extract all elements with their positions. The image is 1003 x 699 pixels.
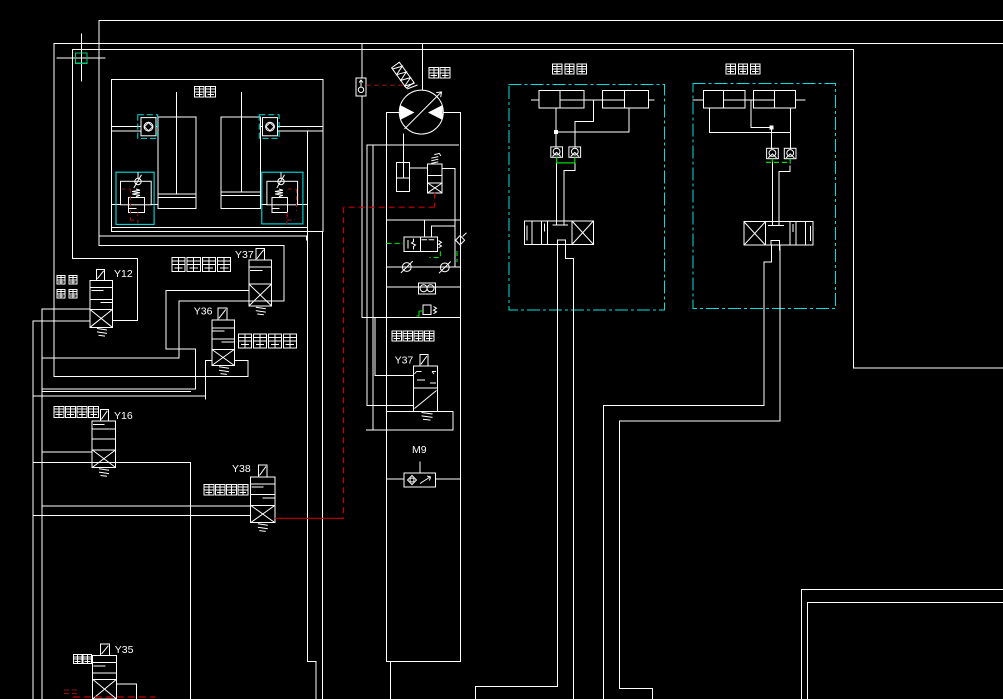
- pilot line red relief right: [287, 189, 297, 228]
- solenoid Y12: [96, 269, 104, 280]
- wire CV2 down R: [789, 166, 791, 171]
- label 动力: [57, 276, 77, 285]
- wire y688 jog: [619, 687, 652, 689]
- solenoid Y37: [256, 248, 265, 260]
- label 主卷快速: [54, 407, 99, 418]
- svg-text:Y16: Y16: [114, 410, 133, 422]
- wire rail x42: [41, 309, 43, 699]
- solenoid Y35: [101, 644, 110, 655]
- gauge test point M: [356, 78, 366, 96]
- wire CV1 to valve: [556, 163, 558, 225]
- solenoid Y16: [100, 409, 108, 421]
- wire rail x190: [189, 463, 191, 699]
- valve Y37 lower body: [414, 366, 438, 412]
- wire rail x322 to bottom: [322, 232, 324, 699]
- label 左伸出: [553, 64, 587, 74]
- valve Y35 X cell: [93, 679, 117, 699]
- spring pump relief top: [431, 153, 441, 163]
- valve Y36 body: [212, 320, 235, 366]
- relief valve right luffing: [262, 172, 303, 224]
- gauge arrow: [359, 80, 363, 87]
- valve left-extend X cell: [572, 221, 594, 245]
- label 主卷开锁: [239, 334, 297, 348]
- wire M9 right: [436, 478, 460, 480]
- pilot line green CV link left-extend: [557, 157, 575, 163]
- spring Y37: [256, 307, 266, 315]
- wire x178 drop: [178, 301, 180, 358]
- wire x195 drop: [195, 349, 197, 389]
- wire junction y131: [556, 131, 629, 133]
- gauge circle: [358, 87, 363, 92]
- piston relief left: [129, 198, 145, 213]
- wire y348 horizontal: [166, 348, 196, 350]
- wire CV2 to box right: [278, 126, 324, 128]
- relief valve left luffing: [116, 172, 154, 224]
- wire Y12 right port: [112, 319, 137, 321]
- check valve left-extend CV1: [551, 147, 563, 157]
- solenoid Y37 lower: [420, 355, 428, 366]
- cylinder left-extend A: [539, 90, 584, 108]
- wire CV1 to valve R: [771, 162, 773, 225]
- pump triangles: [400, 105, 443, 120]
- valve Y16 X cell: [92, 450, 115, 468]
- wire y376 horizontal: [54, 375, 248, 377]
- cylinder right luffing: [221, 117, 261, 209]
- piston relief right: [272, 198, 288, 213]
- svg-text:Y36: Y36: [194, 306, 213, 318]
- wire M9 left: [387, 478, 405, 480]
- wire CV1 to cylinder: [156, 126, 158, 128]
- label 高速: [57, 290, 77, 299]
- wire bianfu lower bus: [100, 235, 307, 237]
- wire jog y258: [566, 258, 574, 260]
- wire bianfu inner bus: [112, 227, 308, 229]
- pilot line red bottom: [73, 696, 156, 698]
- wire CV2 lower to box right: [278, 130, 324, 132]
- svg-text:Y12: Y12: [114, 268, 133, 280]
- wire pilot stem B: [430, 226, 432, 237]
- node right extend section box: [693, 84, 835, 309]
- wire x205 drop: [204, 361, 206, 399]
- pilot line red relief left: [122, 189, 138, 227]
- wire CV2 down: [574, 163, 576, 171]
- wire y225 pilot link: [431, 225, 455, 227]
- wire top border line 3: [73, 49, 854, 51]
- wire y358 to rail: [42, 357, 179, 359]
- wire gauge top: [361, 44, 363, 79]
- wire y121 link: [575, 121, 594, 123]
- valve Y38 body: [251, 477, 275, 523]
- wire rail x316 bottom: [315, 662, 317, 699]
- wire Y35 right box side: [135, 684, 137, 699]
- wire x390 bottom: [389, 662, 391, 699]
- wire jog x307-x316: [307, 661, 316, 663]
- valve left-extend directional body: [524, 221, 593, 245]
- cylinder left luffing: [158, 117, 196, 209]
- svg-text:Y37: Y37: [395, 355, 414, 367]
- wire x619 drop: [618, 421, 620, 689]
- wire y411 under Y37: [387, 410, 453, 412]
- check valve diamond right rail: [456, 233, 467, 245]
- wire x574 drop to CV: [574, 122, 576, 147]
- wire Y12 left port lower: [33, 320, 90, 322]
- wire x283 drop: [283, 245, 285, 301]
- wire right frame horizontal: [853, 367, 1003, 369]
- wire x771 drop to CV R: [771, 127, 773, 148]
- wire Y35 right box top: [117, 683, 137, 685]
- wire y317 horizontal: [362, 316, 460, 318]
- spring relief right: [275, 189, 283, 197]
- flow divider circle A: [420, 285, 427, 292]
- pump main variable displacement P1: [399, 90, 443, 134]
- wire x652 bottom: [651, 688, 653, 699]
- pilot line green hook: [429, 251, 457, 262]
- wire pump discharge right: [443, 112, 460, 114]
- flow divider gear: [418, 283, 435, 294]
- wire rail x375: [374, 317, 376, 375]
- wire Y36 right port: [234, 360, 248, 362]
- wire y301 horizontal: [179, 300, 284, 302]
- wire right frame vertical: [852, 50, 854, 369]
- valve right-extend X cell: [744, 222, 766, 246]
- wire rail x72: [72, 50, 74, 259]
- wire x603 to bottom: [603, 406, 605, 699]
- check valve CV left manifold: [401, 261, 413, 273]
- wire y391 to rail: [42, 390, 190, 392]
- wire to CV1: [112, 126, 142, 128]
- wire inner right drop: [306, 131, 308, 228]
- spring Y37 lower: [422, 413, 433, 421]
- wire Y36 left port stub: [205, 360, 211, 362]
- wire Y16 left port upper: [42, 451, 92, 453]
- wire Y37 left port: [166, 289, 249, 291]
- check valve right-extend CV1: [767, 148, 779, 158]
- valve M9 internals: [408, 476, 431, 485]
- wire x455 drop to check row: [454, 168, 456, 267]
- svg-text:Y38: Y38: [232, 463, 251, 475]
- wire x248 drop: [247, 361, 249, 377]
- wire y389 to rail: [42, 388, 196, 390]
- wire top border line 1: [99, 20, 1003, 22]
- wire mid drop: [593, 100, 595, 122]
- pilot line green CV link right-extend: [766, 159, 790, 166]
- valve Y37 body: [249, 260, 272, 306]
- wire y405 horizontal: [604, 405, 765, 407]
- svg-text:M9: M9: [412, 444, 427, 456]
- valve small pilot body: [423, 305, 431, 315]
- spring Y12: [97, 329, 107, 337]
- wire y258 horizontal: [73, 257, 138, 259]
- wire relief right port: [442, 167, 455, 169]
- wire left rail x99: [98, 21, 100, 246]
- wire left-extend out A: [557, 245, 559, 687]
- pilot line green to 2-cell valve: [387, 242, 405, 244]
- pilot line red gauge: [366, 84, 403, 86]
- wire mid drop R: [750, 100, 752, 127]
- wire Y38 left port lower: [33, 515, 251, 517]
- wire rod stub left: [532, 99, 540, 101]
- node bianfu section box: [112, 79, 324, 231]
- wire rail x33: [32, 321, 34, 699]
- pilot line red Y38 to manifold: [275, 517, 344, 519]
- node left extend section box: [509, 85, 665, 310]
- valve Y16 body: [92, 421, 115, 468]
- wire relief right inner line: [272, 208, 279, 210]
- spring small pilot: [434, 307, 437, 314]
- wire pilot to 2-cell valve: [424, 220, 426, 237]
- wire x475 bottom: [475, 687, 477, 699]
- wire rod link middle R: [745, 99, 753, 101]
- valve left-extend bottom port: [558, 240, 566, 245]
- svg-text:Y37: Y37: [235, 249, 254, 261]
- solenoid Y36: [218, 308, 227, 320]
- check valve right balance CV2: [259, 115, 279, 139]
- node datum target crosshair: [57, 34, 105, 81]
- valve Y35 body: [93, 655, 117, 699]
- valve right-extend bottom port: [771, 241, 779, 246]
- wire Y37 lower port lower: [367, 404, 414, 406]
- wire y396 to rail: [33, 395, 205, 397]
- wire cylA drop: [555, 108, 557, 147]
- wire junction y132 R: [709, 132, 790, 134]
- wire check row bus y267: [387, 266, 460, 268]
- wire drop: [306, 236, 308, 240]
- wire relief left stub out: [151, 203, 158, 205]
- spring manifold 2-cell: [439, 241, 442, 248]
- wire rod link middle: [584, 99, 603, 101]
- wire cylB drop R: [789, 108, 791, 148]
- wire left cylinder rod: [176, 93, 178, 195]
- pilot line red relief drain: [344, 193, 435, 519]
- wire M9 stem: [419, 462, 421, 473]
- label 主卷 pump: [429, 68, 450, 79]
- wire to valve port B: [563, 171, 565, 225]
- valve manifold 2-cell body: [404, 237, 437, 251]
- wire top border line 2: [54, 43, 1003, 45]
- label 右伸出: [726, 64, 760, 74]
- cylinder left-extend B: [603, 90, 649, 108]
- check valve CV right manifold: [439, 262, 451, 274]
- spring Y16: [99, 469, 109, 477]
- valve Y36 X cell: [212, 349, 235, 365]
- valve M9 body: [404, 473, 436, 487]
- flow divider circle B: [427, 285, 434, 292]
- wire pump suction left: [387, 112, 400, 114]
- svg-text:Y35: Y35: [115, 644, 134, 656]
- wire out B stub: [565, 245, 567, 259]
- wire Y12 left port upper: [42, 308, 90, 310]
- wire to valve port R: [778, 171, 780, 225]
- pilot line green small valve: [417, 311, 424, 316]
- wire pump arm: [407, 85, 418, 89]
- wire jog y261 R: [764, 261, 771, 263]
- wire rod stub left R: [693, 99, 703, 101]
- wire cylA drop R: [708, 108, 710, 132]
- node tank box bottom right: [802, 589, 1003, 699]
- wire cylB drop: [628, 108, 630, 132]
- wire Y37 lower port upper: [375, 375, 414, 377]
- valve Y37 lower internals: [415, 372, 437, 409]
- wire manifold divider y287: [387, 286, 460, 288]
- wire x137 riser: [137, 258, 139, 320]
- wire Y38 left port upper: [42, 505, 251, 507]
- wire y127 link R: [751, 126, 772, 128]
- wire jog y170: [564, 170, 575, 172]
- wire rail x373: [372, 145, 374, 430]
- valve pump relief X cell: [428, 183, 442, 193]
- wire out A stub R: [770, 245, 772, 262]
- spring Y36: [219, 367, 229, 375]
- check valve left-extend CV2: [569, 147, 581, 157]
- spring relief left: [132, 189, 140, 197]
- wire block to relief: [409, 167, 427, 169]
- wire to CV1 lower: [112, 130, 142, 132]
- spring Y38: [258, 524, 268, 532]
- wire Y16 through line lower: [33, 462, 190, 464]
- wire rod stub right R: [796, 99, 805, 101]
- cylinder right-extend A: [703, 90, 745, 108]
- check valve left balance CV1: [138, 115, 158, 139]
- wire pump to control block: [403, 134, 405, 178]
- wire rail x460: [460, 113, 462, 662]
- wire y420 horizontal: [619, 420, 780, 422]
- label 副卷开锁: [172, 258, 231, 272]
- wire manifold bus y219: [387, 219, 460, 221]
- wire relief right stub out: [298, 203, 308, 205]
- wire out B stub upper R: [779, 245, 781, 250]
- wire y245 horizontal: [100, 244, 284, 246]
- wire rail x307 to bottom: [306, 228, 308, 662]
- wire pump top: [422, 44, 424, 91]
- wire relief left stub in: [112, 203, 121, 205]
- valve Y12 body: [90, 280, 112, 327]
- wire x452 join: [452, 411, 454, 429]
- wire relief left inner line: [129, 208, 136, 210]
- wire x165 drop: [165, 290, 167, 348]
- wire rail x386: [386, 113, 388, 662]
- check valve right-extend CV2: [784, 148, 796, 158]
- wire manifold top bus y145: [367, 144, 459, 146]
- valve Y38 X cell: [251, 505, 275, 522]
- valve pump relief body: [428, 164, 442, 193]
- label 自由下放: [392, 331, 434, 341]
- valve right-extend directional body: [744, 222, 813, 246]
- label 主卷: [73, 655, 91, 664]
- label 主卷变量: [204, 485, 248, 496]
- wire rail x367: [366, 145, 368, 405]
- valve Y37 X cell: [249, 284, 272, 306]
- wire bottom jog bus: [387, 661, 461, 663]
- pilot line dark red bottom left: [64, 690, 78, 694]
- wire out B drop R: [779, 245, 781, 421]
- cylinder right-extend B: [754, 90, 796, 108]
- wire right cylinder rod: [240, 93, 242, 193]
- solenoid Y38: [258, 465, 267, 477]
- node junction dot left-extend: [554, 130, 557, 133]
- wire cylinder to CV2: [261, 126, 263, 128]
- wire relief right stub in: [261, 203, 267, 205]
- wire y429 box bottom: [367, 429, 453, 431]
- wire jog y171 R: [779, 170, 790, 172]
- pump variable arrow: [405, 92, 442, 129]
- wire rod stub right: [649, 99, 655, 101]
- wire gauge down rail: [361, 96, 363, 317]
- pump control piston block: [397, 163, 410, 192]
- wire rail x54: [53, 44, 55, 377]
- wire x764 drop: [763, 262, 765, 406]
- label 变幅: [195, 87, 216, 98]
- node junction dot right-extend: [770, 126, 773, 129]
- wire x573 to bottom: [573, 259, 575, 699]
- spring pump control: [392, 62, 415, 89]
- valve manifold 2-cell internals: [408, 239, 434, 250]
- valve Y12 X cell: [90, 310, 112, 328]
- wire y686 horizontal: [476, 686, 558, 688]
